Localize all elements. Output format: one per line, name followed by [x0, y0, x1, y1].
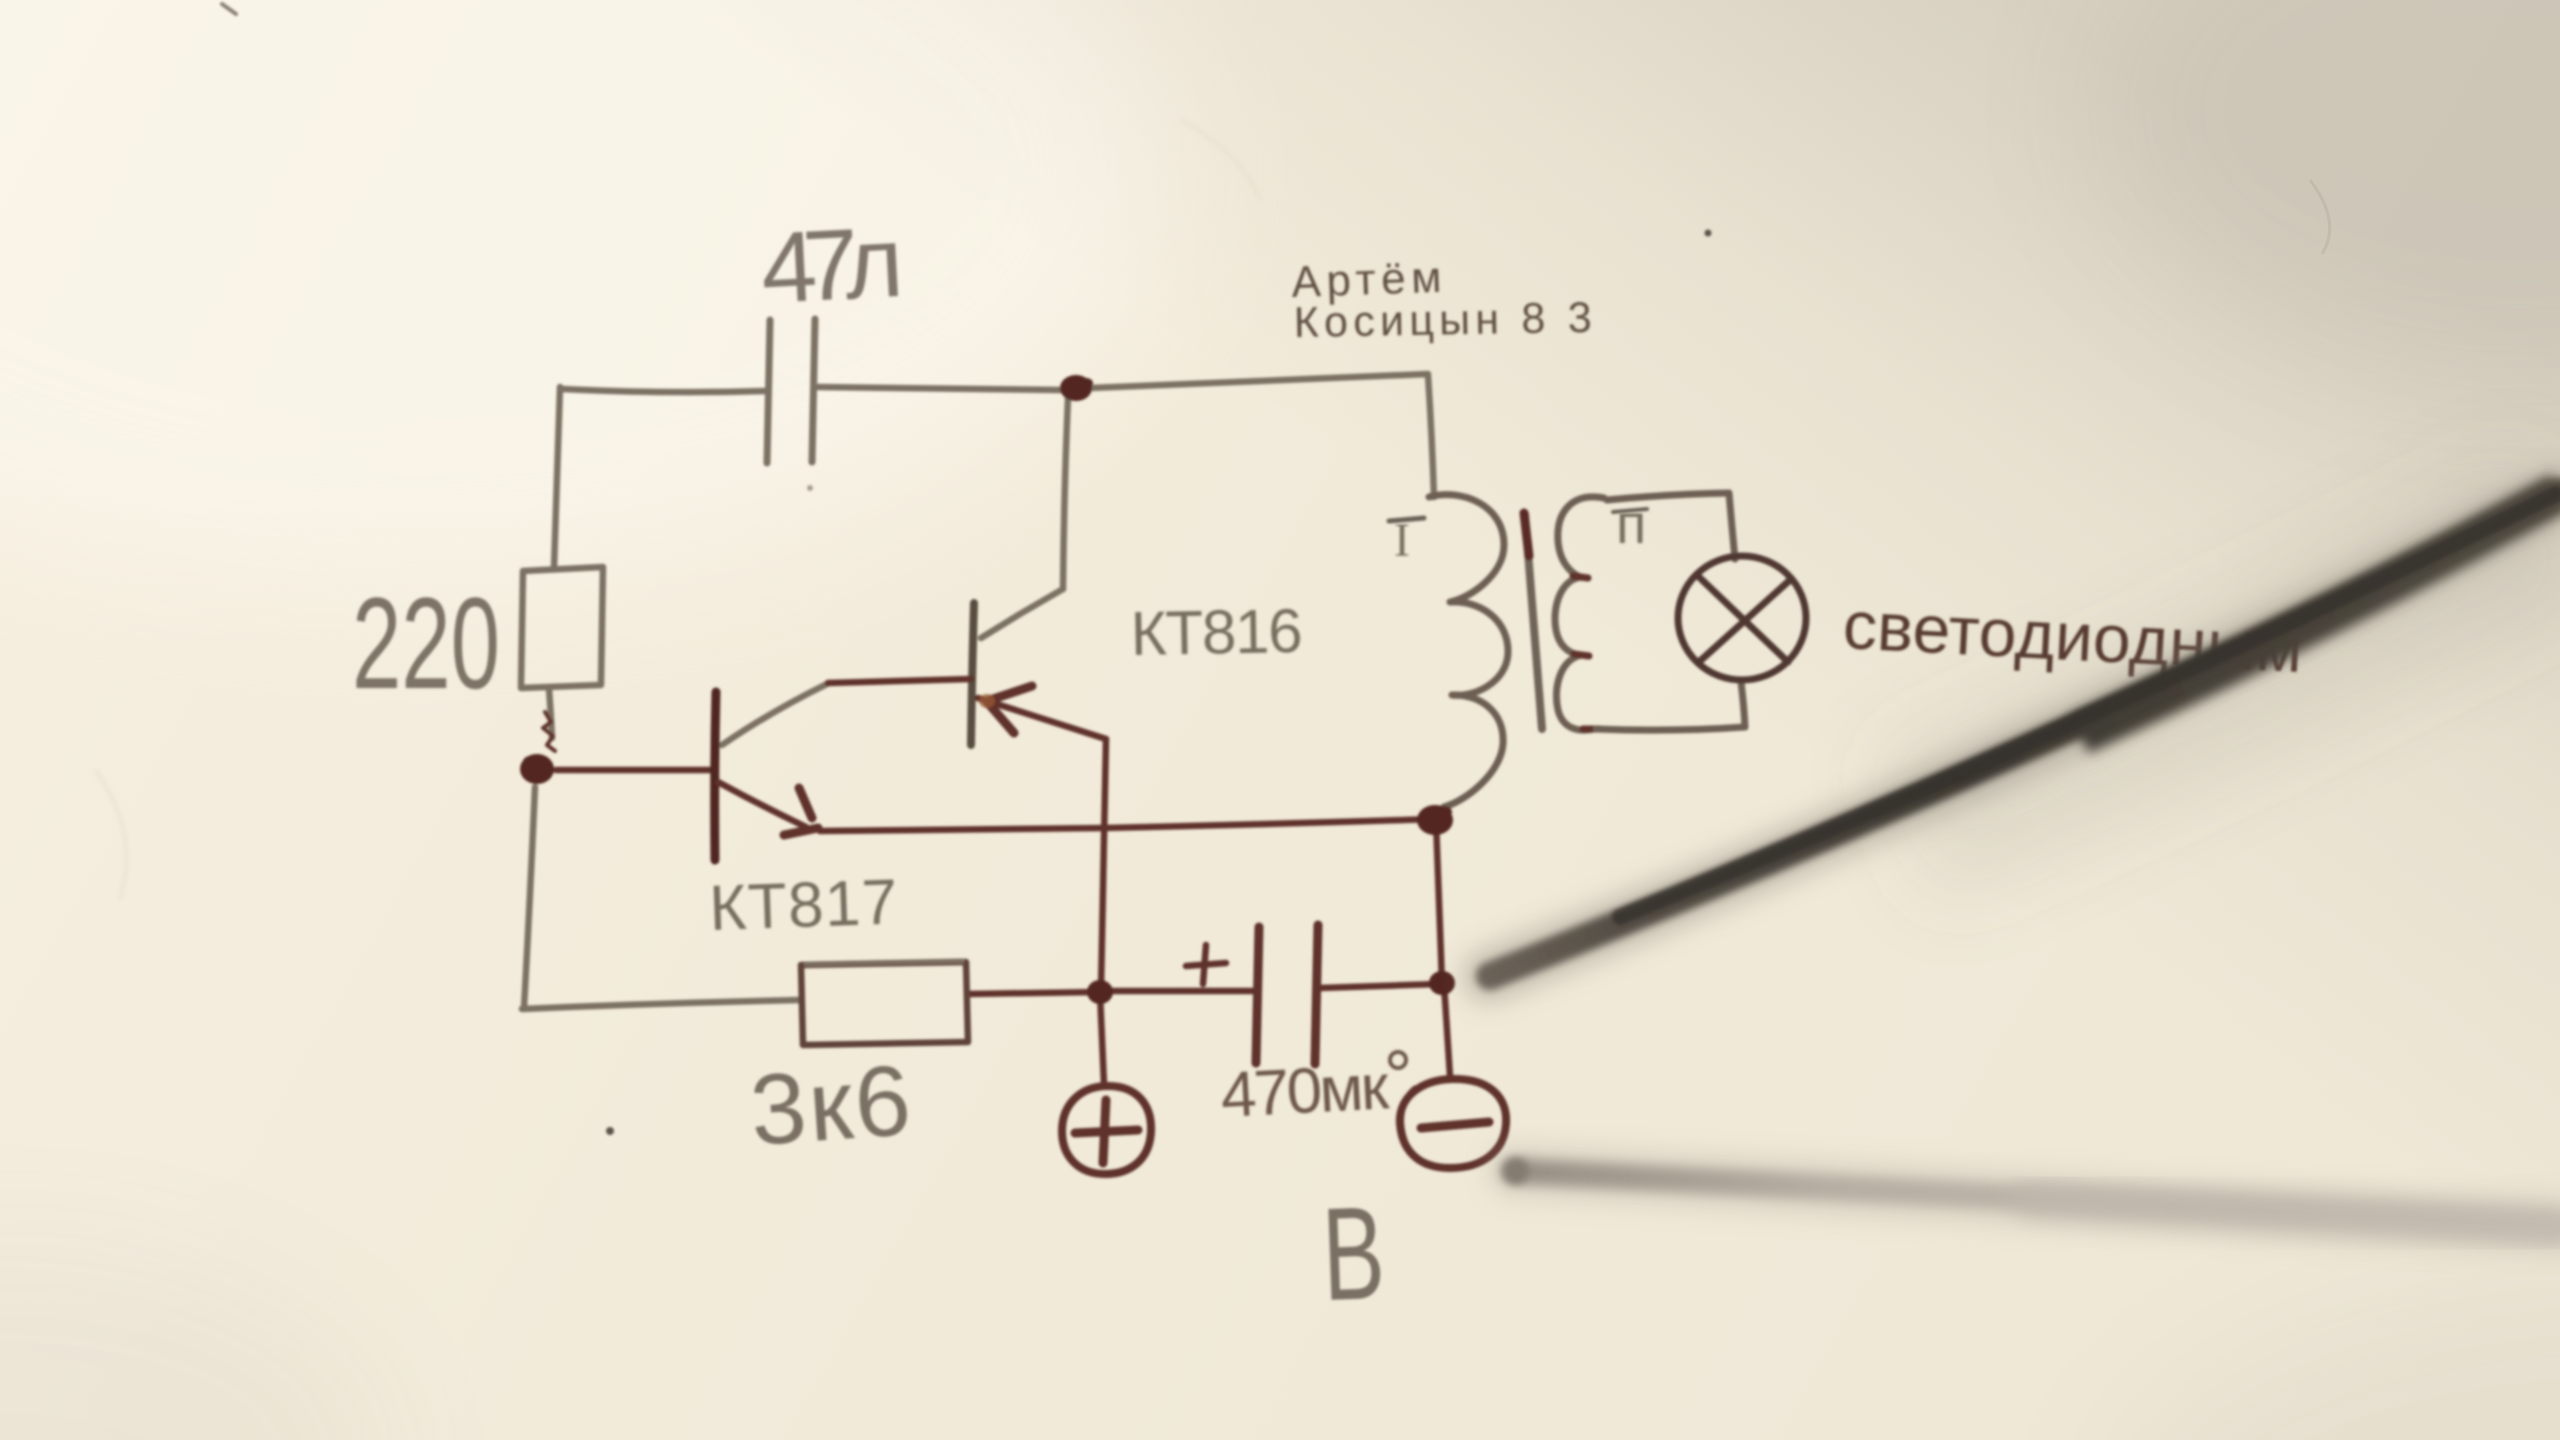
svg-text:47л: 47л: [758, 206, 906, 325]
svg-text:КТ817: КТ817: [708, 865, 898, 944]
svg-text:3к6: 3к6: [747, 1044, 914, 1167]
svg-text:470мк: 470мк: [1219, 1050, 1392, 1131]
svg-text:I: I: [1394, 514, 1410, 567]
svg-text:п: п: [1616, 492, 1646, 555]
svg-text:В: В: [1320, 1179, 1387, 1328]
svg-text:КТ816: КТ816: [1130, 597, 1303, 669]
svg-text:220: 220: [352, 570, 500, 716]
